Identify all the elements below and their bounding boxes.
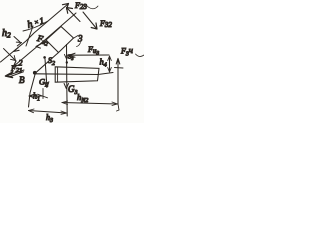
slider block inner left edge stroke xyxy=(57,67,59,82)
wire: horizontal datum line from B through slider to F34 line xyxy=(35,73,113,75)
svg-text:hN2: hN2 xyxy=(77,92,88,104)
svg-text:F23: F23 xyxy=(74,1,87,11)
slider block: link 3 rectangle xyxy=(55,67,99,82)
wire: upper inclined guide line with arrow xyxy=(1,4,69,62)
wire: lower inclined guide line (axis of link 2), arrowhead at lower-left end xyxy=(14,13,76,66)
svg-text:h2: h2 xyxy=(2,28,11,40)
wire: link from B up-right to block corner xyxy=(35,53,58,74)
bottom hook of F34 line xyxy=(117,104,120,111)
joint B node dot xyxy=(33,71,37,75)
dimension h2 arrow (upper tick into guide) xyxy=(14,37,22,52)
svg-text:h1: h1 xyxy=(33,92,40,103)
force F34 vertical arrow (up) xyxy=(117,59,119,104)
dimension h4 double arrow xyxy=(109,57,111,72)
dimension hN2 double arrow line xyxy=(62,103,118,105)
force F23 arrow (up-left) at joint C top xyxy=(67,8,80,22)
svg-text:3: 3 xyxy=(77,34,83,44)
dimension h3 double arrow xyxy=(29,111,67,114)
swash under h x 1 xyxy=(23,21,48,31)
wire: vertical line through joint C and slider, down to h3 end xyxy=(66,45,69,117)
Fu3 arrowhead pointing left near C xyxy=(69,53,75,57)
svg-text:F32: F32 xyxy=(99,19,112,29)
center of mass S2 dot xyxy=(43,56,46,59)
small arrowhead on C vertical below joint xyxy=(64,54,68,59)
joint C node dot xyxy=(66,61,68,63)
label: h x 1 (lever arm text along incline) xyxy=(26,15,45,31)
svg-text:F3ч: F3ч xyxy=(120,45,133,58)
svg-text:B: B xyxy=(19,75,25,85)
wire: vertical line from B down (left bound of h1,h3) xyxy=(29,74,36,107)
weight G3 arrowhead on C vertical xyxy=(64,84,68,89)
svg-text:G2: G2 xyxy=(39,77,49,89)
wire: horizontal line from C to right (Fu3 line of action) xyxy=(67,54,109,56)
svg-text:h3: h3 xyxy=(46,113,53,123)
svg-text:S2: S2 xyxy=(48,56,55,67)
label: link number 3 with tick xyxy=(73,36,78,39)
link 2 block: rotated rectangle on incline xyxy=(46,27,74,53)
dimension h2 arrow (lower tick onto link axis) xyxy=(4,49,16,61)
svg-text:h4: h4 xyxy=(100,57,107,69)
dimension h1 double arrow xyxy=(29,95,43,97)
inertia force Fu2 arrow (short, down-left) xyxy=(26,26,33,46)
wire: short vertical below G2 arrow bounding h1 xyxy=(42,89,44,99)
tick on F34 line xyxy=(115,67,124,70)
force F21 arrow at joint B (bold, pointing down-left) xyxy=(8,70,25,77)
weight G2 arrow from S2 down xyxy=(45,59,47,85)
force F32 arrow (down-right) xyxy=(83,12,97,29)
